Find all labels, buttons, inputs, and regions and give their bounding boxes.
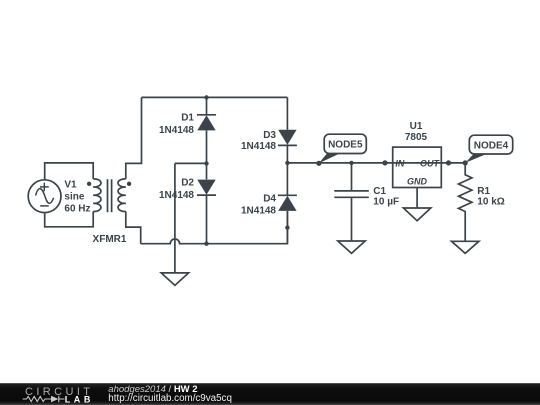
svg-text:V1: V1 bbox=[64, 180, 77, 191]
regulator U1 box bbox=[393, 147, 442, 187]
node flag NODE5 bbox=[319, 134, 366, 163]
svg-text:10 µF: 10 µF bbox=[373, 197, 399, 208]
wire V1 top bbox=[45, 163, 93, 180]
wire V1 bottom bbox=[45, 212, 93, 227]
diode D1 bbox=[197, 115, 216, 131]
diode D2 bbox=[197, 180, 216, 196]
wire right leg upper bbox=[286, 97, 288, 129]
wire U1 GND stem bbox=[416, 188, 418, 209]
pin labels U1 bbox=[395, 158, 440, 186]
node flag NODE4 bbox=[465, 135, 512, 163]
wire mid node to ground stem bbox=[175, 162, 207, 164]
svg-text:D2: D2 bbox=[181, 178, 194, 189]
svg-text:NODE4: NODE4 bbox=[474, 140, 509, 151]
junction dots bbox=[204, 95, 468, 246]
svg-text:1N4148: 1N4148 bbox=[241, 206, 276, 217]
node U1 IN pin bbox=[382, 160, 387, 165]
resistor R1 bbox=[459, 163, 472, 241]
node NODE5 attach bbox=[316, 161, 321, 166]
svg-text:D4: D4 bbox=[263, 194, 276, 205]
ground (U1) bbox=[403, 208, 430, 221]
wire secondary top to bridge top-left bbox=[126, 97, 142, 178]
svg-text:1N4148: 1N4148 bbox=[159, 125, 194, 136]
svg-text:sine: sine bbox=[64, 192, 84, 203]
svg-text:http://circuitlab.com/c9va5cq: http://circuitlab.com/c9va5cq bbox=[108, 393, 232, 404]
svg-text:1N4148: 1N4148 bbox=[241, 141, 276, 152]
wire left leg upper bbox=[206, 97, 208, 114]
svg-text:R1: R1 bbox=[477, 186, 490, 197]
logo CIRCUIT LAB bbox=[23, 386, 94, 405]
node D2 bottom rail bbox=[204, 242, 208, 246]
node NODE4 / R1 bbox=[463, 160, 468, 165]
node D1/D2 mid bbox=[204, 161, 208, 165]
svg-text:U1: U1 bbox=[410, 121, 423, 132]
node C1 branch bbox=[349, 161, 353, 165]
wire top rail bbox=[142, 96, 288, 98]
svg-text:NODE5: NODE5 bbox=[328, 140, 363, 151]
transformer XFMR1 bbox=[87, 179, 131, 212]
node top rail / D1 bbox=[204, 95, 208, 99]
svg-text:XFMR1: XFMR1 bbox=[93, 234, 127, 245]
ground (R1) bbox=[452, 241, 479, 253]
svg-text:60 Hz: 60 Hz bbox=[64, 204, 90, 215]
svg-text:IN: IN bbox=[395, 158, 405, 168]
footer bar bbox=[0, 383, 540, 405]
node U1 OUT pin bbox=[446, 160, 451, 165]
wire output rail to U1 and R1 bbox=[287, 162, 465, 164]
ground (C1) bbox=[338, 241, 365, 253]
voltage source V1 bbox=[28, 180, 61, 213]
wire D1 to mid node bbox=[206, 130, 208, 179]
svg-text:GND: GND bbox=[407, 177, 428, 187]
node D3/D4 mid (NODE5 net) bbox=[285, 161, 289, 165]
diode D3 bbox=[278, 130, 297, 146]
wire D4 to bottom corner bbox=[286, 211, 288, 244]
capacitor C1 bbox=[334, 163, 369, 241]
wire D3 to mid-right node bbox=[286, 145, 288, 195]
wire secondary bottom bbox=[126, 212, 141, 244]
wire bridge ground stem bbox=[174, 163, 176, 273]
svg-text:OUT: OUT bbox=[420, 158, 441, 168]
diode D4 bbox=[278, 195, 297, 211]
node D4 bottom bbox=[285, 225, 289, 229]
svg-text:D3: D3 bbox=[263, 130, 276, 141]
wire D2 to bottom rail bbox=[206, 195, 208, 244]
svg-text:1N4148: 1N4148 bbox=[159, 190, 194, 201]
svg-text:10 kΩ: 10 kΩ bbox=[477, 197, 504, 208]
svg-text:7805: 7805 bbox=[405, 132, 428, 143]
svg-text:C1: C1 bbox=[373, 186, 386, 197]
svg-text:D1: D1 bbox=[181, 113, 194, 124]
svg-text:LAB: LAB bbox=[65, 395, 94, 405]
wire bottom rail with hop bbox=[141, 211, 288, 243]
ground (bridge) bbox=[161, 273, 188, 286]
